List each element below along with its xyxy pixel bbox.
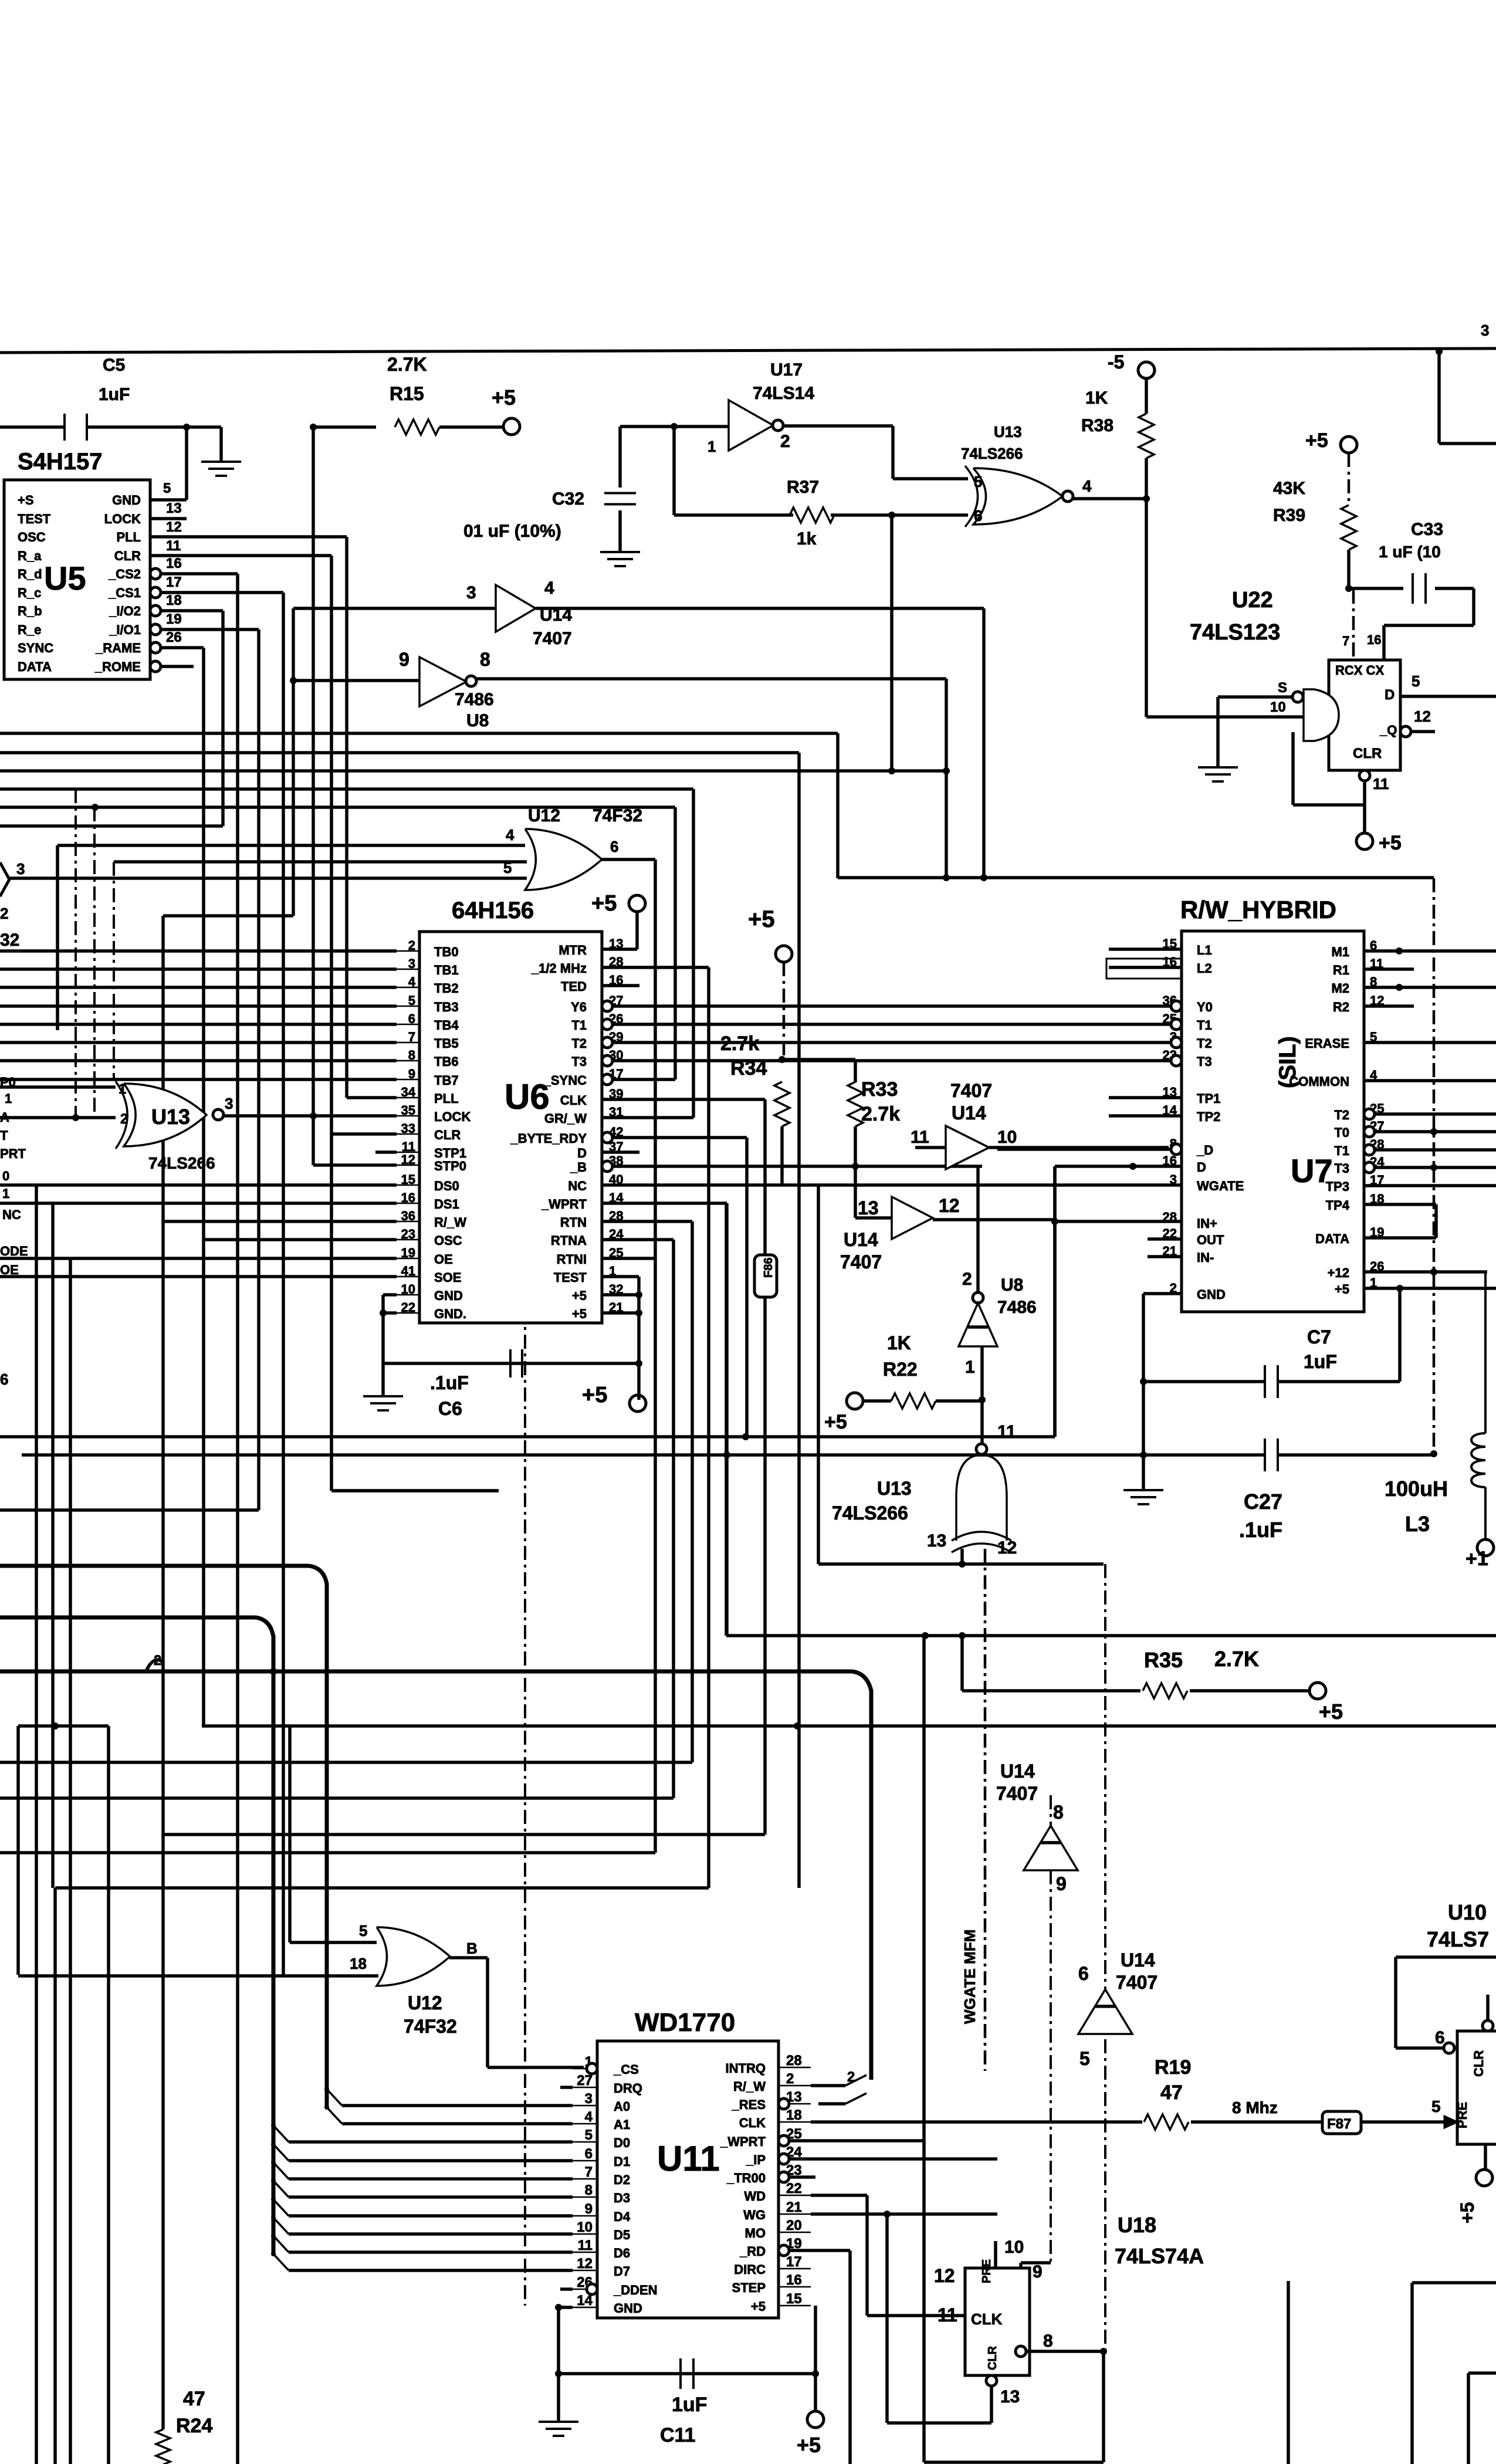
svg-text:1: 1 bbox=[2, 1186, 9, 1201]
svg-text:2: 2 bbox=[120, 1111, 128, 1127]
wire B net bbox=[612, 1165, 982, 1168]
wire R35 left bbox=[960, 1636, 964, 1691]
svg-text:_RD: _RD bbox=[739, 2244, 766, 2259]
svg-text:-5: -5 bbox=[1108, 351, 1124, 373]
U7 T bubbles right bbox=[1364, 1109, 1375, 1119]
svg-text:L3: L3 bbox=[1405, 1512, 1430, 1536]
svg-text:LOCK: LOCK bbox=[104, 512, 141, 526]
wire v1395 bbox=[817, 1185, 820, 1564]
svg-text:C33: C33 bbox=[1411, 520, 1443, 539]
svg-text:4: 4 bbox=[506, 826, 515, 844]
svg-text:16: 16 bbox=[1367, 632, 1381, 647]
inverter U8b up bbox=[973, 1292, 983, 1303]
U7 TP1 stub bbox=[1109, 1096, 1182, 1099]
svg-text:R_e: R_e bbox=[18, 622, 41, 637]
wire U11 +5 bbox=[814, 2306, 817, 2411]
svg-text:R_c: R_c bbox=[18, 585, 41, 600]
svg-text:NC: NC bbox=[568, 1179, 587, 1193]
svg-text:6: 6 bbox=[0, 1370, 8, 1388]
svg-text:19: 19 bbox=[1370, 1225, 1384, 1240]
svg-text:CLR: CLR bbox=[1353, 746, 1382, 761]
svg-text:11: 11 bbox=[166, 538, 181, 554]
wire C33 left bbox=[1349, 587, 1403, 590]
svg-text:_I/O1: _I/O1 bbox=[109, 622, 141, 637]
svg-text:U12: U12 bbox=[408, 1992, 442, 2013]
svg-text:DATA: DATA bbox=[1315, 1231, 1349, 1246]
svg-text:11: 11 bbox=[578, 2238, 593, 2253]
wire WPRT net bbox=[602, 1201, 727, 1205]
svg-text:U12: U12 bbox=[528, 806, 560, 825]
svg-text:D1: D1 bbox=[614, 2154, 630, 2169]
wire R38 top bbox=[1145, 378, 1148, 414]
wire C33 right bbox=[1435, 587, 1474, 590]
svg-text:01 uF (10%): 01 uF (10%) bbox=[463, 522, 561, 541]
svg-text:L2: L2 bbox=[1197, 961, 1212, 976]
wire C11 row bbox=[559, 2372, 815, 2375]
wire U17 out bbox=[783, 424, 893, 428]
ground C11 bbox=[539, 2421, 578, 2423]
svg-text:26: 26 bbox=[166, 629, 182, 645]
capacitor C11 bbox=[679, 2358, 682, 2389]
svg-text:S: S bbox=[1278, 680, 1287, 696]
svg-text:5: 5 bbox=[1370, 1030, 1377, 1044]
svg-text:T3: T3 bbox=[1334, 1161, 1349, 1176]
svg-text:CLK: CLK bbox=[560, 1093, 587, 1108]
wire U7 _D in bbox=[997, 1148, 1170, 1151]
svg-text:CLR: CLR bbox=[986, 2345, 999, 2370]
svg-text:R_d: R_d bbox=[18, 567, 42, 581]
svg-text:B: B bbox=[466, 1940, 478, 1957]
wire U22 fb bbox=[1293, 803, 1365, 807]
svg-text:_IP: _IP bbox=[746, 2152, 766, 2167]
svg-text:MO: MO bbox=[745, 2226, 766, 2240]
wire RAME vertical bbox=[202, 648, 205, 1726]
svg-text:11: 11 bbox=[1373, 775, 1389, 793]
wire v500 bbox=[292, 681, 295, 916]
wire v62 bbox=[35, 1185, 38, 2464]
svg-text:9: 9 bbox=[1056, 1873, 1067, 1894]
wire U8b top bbox=[976, 1166, 980, 1292]
svg-text:7: 7 bbox=[585, 2164, 593, 2180]
chip U22 box bbox=[1329, 660, 1400, 770]
svg-text:PLL: PLL bbox=[434, 1091, 459, 1106]
U7 R2 stub bbox=[1364, 1004, 1414, 1008]
svg-text:R2: R2 bbox=[1333, 1000, 1349, 1014]
svg-text:100uH: 100uH bbox=[1385, 1477, 1448, 1501]
svg-text:RCX CX: RCX CX bbox=[1335, 663, 1384, 678]
svg-text:U14: U14 bbox=[1121, 1949, 1155, 1971]
wire F87 right bbox=[1361, 2120, 1454, 2124]
svg-text:8: 8 bbox=[1053, 1802, 1064, 1823]
U22 trigger gate bbox=[1304, 689, 1339, 741]
wire U6 CLR in bbox=[331, 1132, 397, 1136]
svg-text:2: 2 bbox=[962, 1270, 972, 1289]
svg-text:43K: 43K bbox=[1273, 479, 1305, 498]
svg-text:2: 2 bbox=[1170, 1281, 1177, 1295]
resistor R39 bbox=[1341, 505, 1356, 550]
svg-text:PRE: PRE bbox=[1455, 2102, 1470, 2128]
svg-text:20: 20 bbox=[786, 2218, 802, 2233]
svg-text:STEP: STEP bbox=[732, 2280, 766, 2295]
wire CLR vertical bbox=[330, 556, 333, 1491]
terminal +5 U11 bbox=[807, 2411, 824, 2428]
U5 pin18 IO2 wire bbox=[161, 609, 223, 612]
svg-text:9: 9 bbox=[1033, 2262, 1043, 2282]
svg-text:11: 11 bbox=[1370, 956, 1383, 971]
buffer U14e 13-12 bbox=[892, 1197, 933, 1239]
svg-text:47: 47 bbox=[183, 2388, 205, 2410]
wire U13a out bbox=[224, 1114, 397, 1118]
svg-text:WGATE: WGATE bbox=[1197, 1179, 1244, 1193]
svg-text:R37: R37 bbox=[787, 478, 819, 497]
wire h1496 rail bbox=[838, 876, 1434, 879]
wire rail 3218 bbox=[55, 1886, 709, 1890]
svg-text:1: 1 bbox=[119, 1081, 126, 1097]
svg-text:PRT: PRT bbox=[0, 1146, 26, 1161]
terminal +5 R35 bbox=[1309, 1683, 1326, 1699]
svg-text:8 Mhz: 8 Mhz bbox=[1232, 2099, 1278, 2117]
svg-text:TB1: TB1 bbox=[434, 963, 459, 977]
svg-text:5: 5 bbox=[1431, 2097, 1441, 2116]
wire Y0 line bbox=[612, 1004, 1170, 1008]
svg-text:4: 4 bbox=[544, 578, 554, 598]
svg-text:13: 13 bbox=[858, 1197, 879, 1219]
wire v31 bbox=[16, 1726, 20, 1975]
ground bbox=[201, 461, 241, 463]
svg-text:12: 12 bbox=[1414, 708, 1431, 725]
svg-text:LOCK: LOCK bbox=[434, 1109, 471, 1124]
terminal +5 R22 bbox=[847, 1393, 863, 1409]
terminal +5 U22 bbox=[1356, 833, 1373, 849]
wire v120 bbox=[69, 1258, 72, 2464]
svg-text:TEST: TEST bbox=[18, 512, 51, 526]
svg-text:74LS266: 74LS266 bbox=[961, 445, 1023, 462]
svg-text:10: 10 bbox=[1004, 2238, 1024, 2257]
svg-text:+5: +5 bbox=[572, 1288, 587, 1303]
terminal +12 L3 bbox=[1477, 1539, 1494, 1556]
U5 pin5 GND stub bbox=[150, 498, 187, 502]
svg-text:PLL: PLL bbox=[116, 530, 141, 544]
svg-text:.1uF: .1uF bbox=[430, 1372, 469, 1393]
svg-text:+5: +5 bbox=[572, 1307, 587, 1321]
wire U18 pin9 jog bbox=[1021, 2261, 1051, 2265]
wire C27 left dot bbox=[1140, 1451, 1147, 1458]
svg-text:D0: D0 bbox=[614, 2135, 630, 2150]
U7 IN- stub bbox=[1148, 1255, 1182, 1258]
wire U6 STP1 in bbox=[375, 1150, 397, 1154]
svg-text:74LS14: 74LS14 bbox=[753, 384, 814, 403]
svg-text:+5: +5 bbox=[1305, 429, 1328, 452]
wire T3 line bbox=[612, 1059, 1170, 1062]
svg-text:10: 10 bbox=[577, 2219, 593, 2235]
svg-text:22: 22 bbox=[1163, 1226, 1177, 1241]
wire U7 D in bbox=[1055, 1165, 1182, 1168]
svg-text:D3: D3 bbox=[614, 2191, 630, 2205]
buffer U14c bbox=[1024, 1826, 1078, 1870]
capacitor C32 bbox=[604, 492, 636, 495]
svg-text:2.7k: 2.7k bbox=[720, 1033, 759, 1055]
svg-text:1uF: 1uF bbox=[672, 2394, 707, 2416]
svg-text:D2: D2 bbox=[614, 2172, 630, 2187]
U18 clr stub bbox=[986, 2375, 997, 2386]
resistor R37 bbox=[790, 507, 834, 523]
svg-text:TED: TED bbox=[561, 979, 587, 994]
svg-text:17: 17 bbox=[1370, 1173, 1384, 1187]
wire br corner1 bbox=[1412, 2281, 1496, 2284]
svg-text:Y6: Y6 bbox=[571, 1000, 587, 1014]
U10 pre top pin bbox=[1483, 2020, 1493, 2031]
wire GND14 bbox=[559, 2306, 573, 2309]
svg-text:8: 8 bbox=[480, 649, 490, 670]
svg-text:18: 18 bbox=[786, 2107, 802, 2123]
wire T1 line bbox=[612, 1023, 1170, 1026]
svg-text:R35: R35 bbox=[1144, 1648, 1183, 1672]
svg-text:1K: 1K bbox=[887, 1332, 911, 1353]
svg-text:R/W_HYBRID: R/W_HYBRID bbox=[1180, 896, 1336, 923]
wire COMMON bbox=[1364, 1079, 1496, 1082]
svg-text:11: 11 bbox=[911, 1128, 929, 1147]
svg-text:3: 3 bbox=[585, 2091, 593, 2107]
wire +5 R34 bbox=[783, 962, 786, 1060]
terminal +5 R15 bbox=[503, 418, 520, 435]
wire v278 bbox=[161, 916, 165, 2429]
capacitor C33 bbox=[1412, 573, 1414, 604]
wire row b2 bbox=[0, 732, 838, 735]
svg-text:1: 1 bbox=[609, 1264, 616, 1278]
wire v895 dashed bbox=[524, 1150, 526, 2306]
svg-text:CLR: CLR bbox=[1471, 2050, 1486, 2077]
svg-text:25: 25 bbox=[609, 1245, 623, 1260]
wire row f bbox=[57, 844, 525, 847]
wire row g bbox=[114, 860, 527, 864]
svg-text:IN-: IN- bbox=[1197, 1250, 1214, 1265]
svg-text:14: 14 bbox=[1163, 1103, 1177, 1118]
svg-text:26: 26 bbox=[1370, 1259, 1384, 1274]
resistor R24 bbox=[156, 2429, 170, 2464]
svg-text:21: 21 bbox=[609, 1300, 623, 1315]
wire U6 DS1 in bbox=[0, 1201, 397, 1205]
U6 TB bus wires bbox=[0, 949, 397, 953]
wire v1117 low bbox=[654, 1258, 657, 1853]
wire right rail down bbox=[1433, 878, 1436, 1454]
wire TP4 loop bbox=[1364, 1203, 1436, 1206]
svg-text:GND.: GND. bbox=[434, 1307, 466, 1321]
inverter U17 bbox=[729, 400, 773, 451]
svg-text:_TR00: _TR00 bbox=[726, 2171, 766, 2185]
svg-text:R34: R34 bbox=[730, 1057, 767, 1079]
svg-text:TB3: TB3 bbox=[434, 1000, 459, 1014]
wire D stub bbox=[602, 1150, 639, 1154]
wire T2r bbox=[1364, 1112, 1496, 1116]
svg-text:CLK: CLK bbox=[739, 2116, 766, 2130]
wire RTNA net bbox=[602, 1238, 673, 1241]
wire rail 2942b bbox=[202, 1724, 1496, 1728]
svg-text:+5: +5 bbox=[1457, 2202, 1478, 2223]
svg-text:+5: +5 bbox=[797, 2433, 821, 2457]
wire R15 node vertical bbox=[312, 427, 315, 1165]
svg-text:D: D bbox=[577, 1146, 587, 1160]
wire U6 GND tie bbox=[381, 1295, 385, 1365]
svg-text:2: 2 bbox=[786, 2071, 794, 2087]
bus rips D0-D7 bbox=[273, 2125, 289, 2142]
svg-text:8: 8 bbox=[1370, 974, 1377, 989]
svg-text:U14: U14 bbox=[540, 605, 572, 625]
svg-text:5: 5 bbox=[1412, 672, 1420, 690]
svg-text:16: 16 bbox=[786, 2272, 802, 2288]
svg-text:5: 5 bbox=[1079, 2048, 1090, 2069]
svg-text:28: 28 bbox=[1163, 1210, 1177, 1224]
svg-text:_1/2 MHz: _1/2 MHz bbox=[531, 961, 587, 976]
svg-text:R39: R39 bbox=[1273, 506, 1305, 525]
svg-text:+12: +12 bbox=[1328, 1265, 1349, 1280]
svg-text:7407: 7407 bbox=[950, 1080, 992, 1101]
svg-text:14: 14 bbox=[609, 1190, 624, 1205]
svg-text:M2: M2 bbox=[1331, 981, 1349, 996]
svg-text:2.7K: 2.7K bbox=[387, 354, 427, 375]
capacitor C27 bbox=[1264, 1439, 1266, 1471]
or gate U12c bbox=[377, 1927, 450, 1986]
U18 pre stub bbox=[994, 2241, 997, 2268]
svg-text:6: 6 bbox=[610, 838, 618, 855]
svg-text:TB6: TB6 bbox=[434, 1054, 459, 1069]
wire C7 left bbox=[1143, 1380, 1265, 1383]
buffer U14b 11-10 bbox=[946, 1126, 989, 1169]
wire pin11 to +5 bbox=[1363, 805, 1366, 833]
wire TP3 bbox=[1364, 1184, 1496, 1187]
svg-text:5: 5 bbox=[503, 859, 512, 876]
wire RTN net bbox=[602, 1220, 692, 1223]
wire +5 to MTR bbox=[635, 912, 639, 949]
wire U6 OSC in bbox=[204, 1238, 397, 1241]
wire U11 WD bbox=[811, 2194, 867, 2197]
svg-text:12: 12 bbox=[577, 2256, 593, 2272]
U7 L1 stub bbox=[1109, 947, 1182, 951]
svg-text:27: 27 bbox=[577, 2073, 593, 2089]
svg-text:_SYNC: _SYNC bbox=[543, 1073, 587, 1088]
bus rips A0 A1 bbox=[327, 2089, 342, 2106]
svg-text:R1: R1 bbox=[1333, 963, 1349, 977]
svg-text:MTR: MTR bbox=[559, 943, 587, 957]
wire br corner2 bbox=[1468, 2371, 1496, 2375]
wire +5 row bbox=[1364, 1287, 1496, 1290]
xnor U13a bbox=[124, 1084, 207, 1146]
wire row b bbox=[0, 769, 946, 773]
svg-text:T3: T3 bbox=[571, 1054, 587, 1069]
wire U11 WPRT bbox=[789, 2139, 924, 2143]
U10 pin6 bbox=[1444, 2043, 1454, 2053]
svg-text:U8: U8 bbox=[466, 711, 489, 730]
svg-text:U13: U13 bbox=[151, 1105, 190, 1129]
svg-text:24: 24 bbox=[609, 1227, 624, 1241]
wire BYTERDY net bbox=[612, 1136, 747, 1139]
wire U14a in bbox=[293, 607, 496, 610]
wire U7 Din vert bbox=[1053, 1166, 1057, 1437]
wire CS1 vertical bbox=[282, 593, 285, 1975]
wire U11 RES rip bbox=[818, 2102, 845, 2106]
svg-text:R_b: R_b bbox=[18, 604, 42, 618]
svg-text:9: 9 bbox=[399, 649, 409, 670]
svg-text:4: 4 bbox=[1082, 477, 1092, 495]
svg-text:C11: C11 bbox=[660, 2424, 696, 2446]
wire U12a out bbox=[601, 858, 655, 861]
svg-text:12: 12 bbox=[997, 1538, 1017, 1558]
wire R15 left bbox=[313, 425, 376, 429]
wire U12c in5 bbox=[290, 1941, 377, 1944]
svg-text:TP2: TP2 bbox=[1197, 1109, 1220, 1124]
svg-text:+5: +5 bbox=[492, 385, 516, 409]
wire rail 2480 bbox=[22, 1453, 1265, 1457]
wire R39 bot bbox=[1347, 550, 1351, 588]
wire R34 bot bbox=[780, 1126, 784, 1185]
U7 L2 rect bbox=[1106, 959, 1182, 979]
svg-text:74F32: 74F32 bbox=[404, 2016, 457, 2037]
svg-text:40: 40 bbox=[609, 1172, 623, 1187]
or gate U12a bbox=[525, 829, 602, 890]
U22 pin11 bbox=[1359, 770, 1370, 781]
svg-text:M1: M1 bbox=[1331, 945, 1349, 959]
svg-text:+5: +5 bbox=[1319, 1700, 1343, 1724]
resistor R15 bbox=[395, 419, 439, 435]
svg-text:U14: U14 bbox=[1000, 1761, 1035, 1782]
svg-text:DIRC: DIRC bbox=[734, 2262, 766, 2277]
svg-text:U10: U10 bbox=[1448, 1900, 1487, 1924]
wire v129 bbox=[75, 789, 77, 1118]
svg-text:D5: D5 bbox=[614, 2228, 630, 2242]
svg-text:10: 10 bbox=[1270, 699, 1286, 715]
gate fragment left edge bbox=[0, 862, 9, 896]
svg-text:R33: R33 bbox=[861, 1078, 898, 1101]
terminal -5 R38 bbox=[1138, 362, 1155, 378]
wire bus v1485 bbox=[869, 1690, 874, 2080]
wire v90 bbox=[51, 1203, 55, 1888]
wire U8b bottom bbox=[980, 1346, 984, 1443]
svg-text:+5: +5 bbox=[1379, 832, 1402, 854]
wire TEST tie bbox=[602, 1275, 639, 1278]
wire U14a out bbox=[536, 607, 984, 610]
svg-text:D6: D6 bbox=[614, 2246, 630, 2260]
svg-text:WG: WG bbox=[743, 2208, 766, 2222]
svg-text:3: 3 bbox=[1481, 321, 1489, 339]
wire U6 halfmhz bbox=[602, 966, 709, 969]
svg-text:U6: U6 bbox=[505, 1077, 550, 1116]
U5 pin19 IO1 wire bbox=[161, 628, 259, 631]
svg-text:5: 5 bbox=[974, 473, 982, 490]
svg-text:_RAME: _RAME bbox=[95, 641, 141, 655]
svg-text:WD: WD bbox=[744, 2189, 766, 2204]
svg-text:7407: 7407 bbox=[533, 629, 572, 648]
svg-text:NC: NC bbox=[2, 1207, 21, 1222]
svg-text:7486: 7486 bbox=[997, 1298, 1037, 1317]
svg-text:R19: R19 bbox=[1155, 2056, 1191, 2079]
buffer U14a bbox=[496, 585, 536, 632]
svg-text:T0: T0 bbox=[1334, 1125, 1349, 1140]
wire NGATE long bbox=[602, 1183, 1182, 1187]
svg-text:TP3: TP3 bbox=[1326, 1179, 1349, 1194]
svg-text:13: 13 bbox=[1000, 2387, 1020, 2407]
U22 gate input bubble bbox=[1292, 692, 1303, 702]
svg-text:6: 6 bbox=[1435, 2028, 1445, 2047]
svg-text:T2: T2 bbox=[571, 1036, 587, 1051]
svg-text:OUT: OUT bbox=[1197, 1233, 1224, 1247]
U5 ROME stub bbox=[161, 665, 194, 668]
svg-text:.1uF: .1uF bbox=[1239, 1518, 1282, 1542]
svg-text:_CS1: _CS1 bbox=[108, 585, 141, 600]
wire h2666 bbox=[818, 1562, 1104, 1566]
U5 pin11 CLR wire bbox=[150, 554, 331, 557]
svg-text:D: D bbox=[1385, 687, 1395, 703]
U18 q bub bbox=[1016, 2346, 1026, 2357]
svg-text:10: 10 bbox=[997, 1128, 1017, 1147]
